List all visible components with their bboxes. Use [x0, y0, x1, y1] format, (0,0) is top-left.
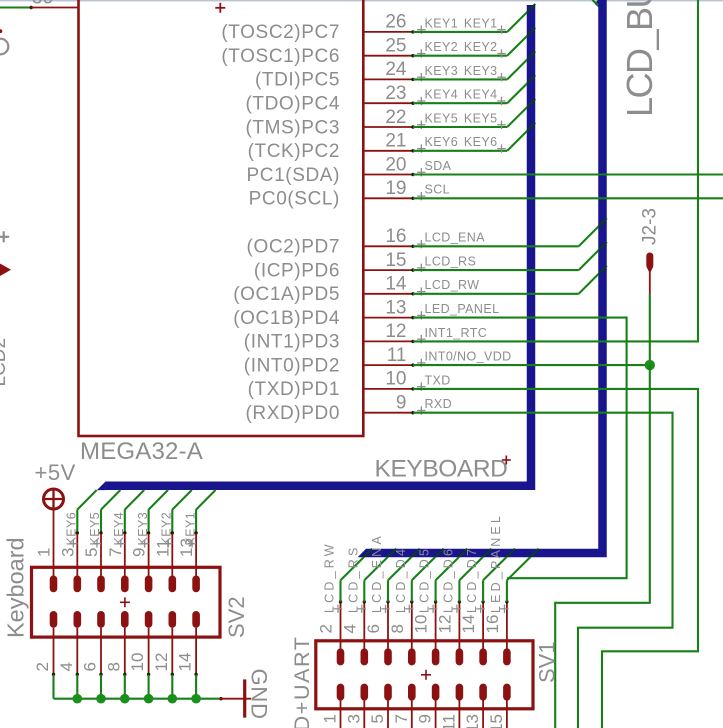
svg-text:LCD_D5: LCD_D5: [418, 546, 432, 613]
svg-text:KEY4: KEY4: [464, 88, 498, 102]
svg-text:16: 16: [385, 226, 406, 247]
svg-text:KEY4: KEY4: [112, 512, 126, 546]
svg-text:LCD_ENA: LCD_ENA: [425, 231, 486, 245]
svg-text:INT1_RTC: INT1_RTC: [425, 326, 488, 340]
svg-text:9: 9: [416, 714, 435, 723]
svg-text:(TOSC1)PC6: (TOSC1)PC6: [221, 46, 340, 67]
svg-text:14: 14: [459, 615, 478, 634]
svg-text:INT0/NO_VDD: INT0/NO_VDD: [425, 350, 512, 364]
svg-text:LCD+UART: LCD+UART: [290, 635, 314, 728]
svg-text:11: 11: [439, 714, 458, 728]
svg-text:11: 11: [153, 539, 172, 557]
svg-text:KEY1: KEY1: [425, 16, 459, 30]
svg-text:LCD_D7: LCD_D7: [465, 546, 479, 613]
svg-text:LCD_RS: LCD_RS: [346, 544, 360, 613]
svg-text:(INT0)PD2: (INT0)PD2: [244, 355, 340, 376]
svg-text:KEY6: KEY6: [425, 135, 459, 149]
svg-text:9: 9: [130, 548, 149, 557]
svg-text:3: 3: [58, 548, 77, 557]
svg-text:(OC1B)PD4: (OC1B)PD4: [233, 308, 340, 329]
svg-text:14: 14: [385, 274, 407, 295]
svg-text:14: 14: [176, 653, 195, 672]
svg-text:2: 2: [33, 662, 52, 671]
svg-text:21: 21: [385, 131, 406, 152]
svg-text:KEY3: KEY3: [464, 64, 498, 78]
svg-text:2: 2: [317, 624, 336, 633]
svg-text:10: 10: [385, 369, 406, 390]
svg-text:PC0(SCL): PC0(SCL): [249, 189, 340, 210]
svg-text:KEY6: KEY6: [65, 512, 79, 546]
svg-text:KEYBOARD: KEYBOARD: [375, 456, 508, 483]
svg-text:(OC2)PD7: (OC2)PD7: [247, 237, 340, 258]
svg-text:MEGA32-A: MEGA32-A: [80, 438, 203, 465]
svg-text:LCD_RS: LCD_RS: [425, 255, 477, 269]
svg-text:Keyboard: Keyboard: [3, 537, 29, 638]
svg-text:26: 26: [385, 12, 406, 33]
svg-text:KEY4: KEY4: [425, 88, 459, 102]
svg-text:(OC1A)PD5: (OC1A)PD5: [233, 284, 340, 305]
svg-text:25: 25: [385, 36, 406, 57]
svg-text:+5V: +5V: [35, 460, 76, 485]
svg-text:15: 15: [487, 714, 506, 728]
svg-text:9: 9: [396, 393, 407, 414]
svg-text:1: 1: [321, 714, 340, 723]
svg-text:(TMS)PC3: (TMS)PC3: [245, 117, 340, 138]
svg-text:TXD: TXD: [425, 373, 451, 387]
svg-text:KEY6: KEY6: [464, 135, 498, 149]
svg-text:20: 20: [385, 154, 406, 175]
svg-text:LCD_D6: LCD_D6: [441, 546, 455, 613]
svg-text:13: 13: [385, 297, 406, 318]
svg-text:7: 7: [106, 548, 125, 557]
svg-text:23: 23: [385, 83, 406, 104]
svg-text:15: 15: [385, 250, 406, 271]
svg-text:12: 12: [435, 615, 454, 634]
svg-text:J2-3: J2-3: [640, 208, 661, 245]
svg-text:10: 10: [412, 615, 431, 634]
svg-text:LED_PANEL: LED_PANEL: [489, 513, 503, 613]
svg-text:(TXD)PD1: (TXD)PD1: [248, 379, 340, 400]
svg-text:KEY2: KEY2: [464, 40, 498, 54]
svg-text:KEY5: KEY5: [88, 512, 102, 546]
svg-text:LCD2: LCD2: [0, 338, 10, 387]
svg-text:RXD: RXD: [425, 397, 453, 411]
svg-text:(TOSC2)PC7: (TOSC2)PC7: [221, 22, 340, 43]
svg-text:KEY5: KEY5: [425, 111, 459, 125]
svg-text:LED_PANEL: LED_PANEL: [425, 302, 500, 316]
svg-text:1: 1: [35, 548, 54, 557]
svg-text:(INT1)PD3: (INT1)PD3: [244, 332, 340, 353]
svg-text:KEY3: KEY3: [136, 512, 150, 546]
svg-text:8: 8: [104, 662, 123, 671]
svg-text:PC1(SDA): PC1(SDA): [247, 165, 340, 186]
svg-text:13: 13: [177, 538, 196, 557]
svg-text:(TDO)PC4: (TDO)PC4: [245, 94, 340, 115]
svg-text:24: 24: [385, 59, 407, 80]
svg-text:(ICP)PD6: (ICP)PD6: [254, 260, 340, 281]
svg-text:6: 6: [81, 662, 100, 671]
svg-text:LCD_D4: LCD_D4: [394, 546, 408, 613]
svg-text:SV2: SV2: [224, 596, 249, 638]
svg-text:LCD_RW: LCD_RW: [425, 278, 480, 292]
svg-text:KEY5: KEY5: [464, 111, 498, 125]
svg-text:12: 12: [152, 653, 171, 672]
svg-text:4: 4: [340, 624, 359, 633]
svg-text:KEY3: KEY3: [425, 64, 459, 78]
svg-text:KEY2: KEY2: [425, 40, 459, 54]
svg-text:16: 16: [483, 615, 502, 634]
svg-text:10: 10: [128, 653, 147, 672]
svg-text:LCD_RW: LCD_RW: [323, 541, 337, 613]
svg-text:13: 13: [463, 714, 482, 728]
svg-text:22: 22: [385, 107, 406, 128]
svg-text:3: 3: [344, 714, 363, 723]
svg-text:SV1: SV1: [535, 641, 560, 683]
svg-text:36: 36: [32, 0, 53, 9]
svg-text:KEY1: KEY1: [464, 16, 498, 30]
svg-text:(RXD)PD0: (RXD)PD0: [245, 403, 340, 424]
svg-text:(TCK)PC2: (TCK)PC2: [248, 141, 340, 162]
svg-text:SDA: SDA: [425, 159, 452, 173]
svg-text:GND: GND: [247, 669, 272, 720]
svg-text:6: 6: [364, 624, 383, 633]
svg-text:5: 5: [368, 714, 387, 723]
svg-text:LCD_ENA: LCD_ENA: [370, 533, 384, 613]
svg-text:SCL: SCL: [425, 183, 451, 197]
svg-text:(TDI)PC5: (TDI)PC5: [255, 70, 340, 91]
svg-text:5: 5: [82, 548, 101, 557]
svg-text:12: 12: [385, 321, 406, 342]
svg-text:8: 8: [388, 624, 407, 633]
svg-text:19: 19: [385, 178, 406, 199]
svg-text:LCD_BUS: LCD_BUS: [619, 0, 660, 117]
svg-text:11: 11: [387, 345, 407, 366]
svg-text:7: 7: [392, 714, 411, 723]
svg-text:4: 4: [57, 662, 76, 671]
